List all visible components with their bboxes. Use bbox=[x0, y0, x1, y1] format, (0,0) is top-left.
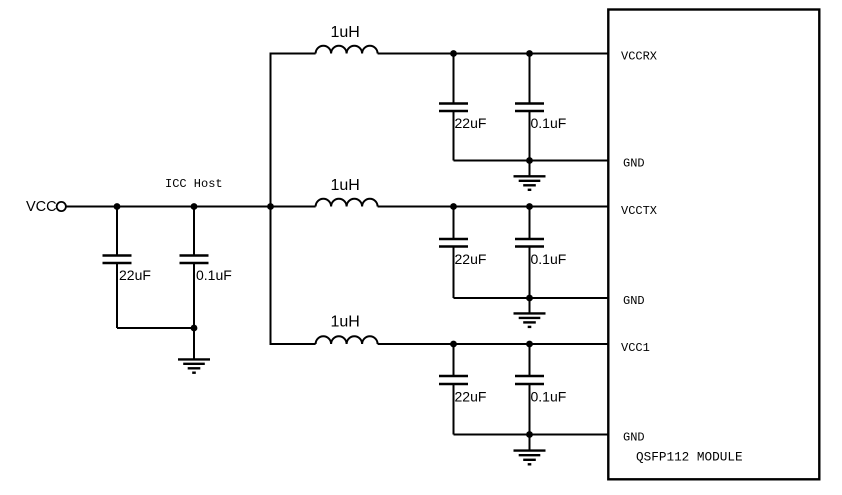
svg-text:1uH: 1uH bbox=[331, 314, 360, 331]
svg-text:0.1uF: 0.1uF bbox=[531, 389, 567, 405]
svg-text:VCCTX: VCCTX bbox=[621, 204, 657, 218]
svg-text:0.1uF: 0.1uF bbox=[531, 115, 567, 131]
svg-text:GND: GND bbox=[623, 294, 645, 308]
svg-text:VCC1: VCC1 bbox=[621, 341, 650, 355]
svg-text:QSFP112 MODULE: QSFP112 MODULE bbox=[636, 450, 743, 465]
svg-text:1uH: 1uH bbox=[331, 24, 360, 41]
svg-text:22uF: 22uF bbox=[119, 267, 151, 283]
svg-text:GND: GND bbox=[623, 431, 645, 445]
svg-text:VCC: VCC bbox=[26, 199, 57, 215]
svg-text:0.1uF: 0.1uF bbox=[531, 251, 567, 267]
svg-text:22uF: 22uF bbox=[455, 115, 487, 131]
svg-text:22uF: 22uF bbox=[455, 251, 487, 267]
svg-text:22uF: 22uF bbox=[455, 389, 487, 405]
svg-text:ICC Host: ICC Host bbox=[165, 177, 223, 191]
svg-text:VCCRX: VCCRX bbox=[621, 50, 657, 64]
svg-text:GND: GND bbox=[623, 157, 645, 171]
svg-text:1uH: 1uH bbox=[331, 177, 360, 194]
svg-text:0.1uF: 0.1uF bbox=[196, 267, 232, 283]
